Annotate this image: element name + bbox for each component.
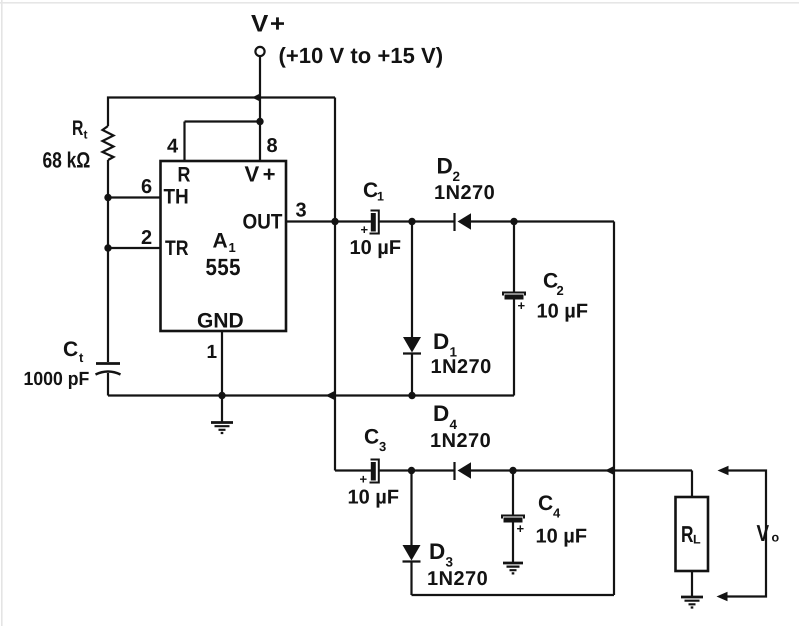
wire top rail Rt to OUT corner: [108, 98, 335, 127]
node D dot: [509, 467, 516, 474]
value C1 10uF: [351, 240, 401, 258]
label C4: [539, 495, 553, 510]
label D3: [431, 544, 445, 559]
pin 8: [267, 138, 277, 152]
value 68 kOhm: [43, 152, 89, 168]
node C dot: [408, 467, 415, 474]
pin label TH: [164, 189, 188, 203]
pin label V+: [245, 166, 275, 181]
supply range label: [280, 47, 442, 68]
crossover arrow at right rail: [605, 466, 614, 475]
pin 2: [142, 230, 152, 244]
resistor RL box: [676, 497, 709, 571]
pin 4: [167, 139, 178, 153]
op-amp A1 555 timer box: [161, 161, 287, 331]
label RL: [682, 526, 693, 542]
label D4: [435, 406, 449, 421]
arrow Vo bottom: [717, 592, 728, 601]
wire TR: [108, 247, 160, 249]
wire C1 to node A: [379, 220, 454, 222]
capacitor Ct: [96, 362, 120, 365]
node OUT junction dot: [331, 218, 338, 225]
value D4 1N270: [431, 433, 490, 447]
label D1: [435, 334, 449, 349]
pin label R: [179, 167, 190, 181]
diode D1: [411, 222, 413, 338]
label Rt: [73, 121, 83, 135]
arrow Vo top: [718, 466, 729, 475]
wire right vertical rail: [613, 222, 615, 596]
label A1: [213, 233, 227, 247]
value C3 10uF: [349, 490, 399, 508]
wire pin 1 to ground: [221, 331, 223, 396]
pin 1: [208, 345, 217, 358]
wire RL to ground: [691, 571, 693, 597]
value Ct 1000 pF: [25, 372, 89, 389]
node ground junction dot: [218, 392, 225, 399]
label Vo: [757, 525, 769, 541]
polarity plus C4: [517, 525, 524, 532]
capacitor C4: [512, 471, 514, 516]
label D2: [438, 158, 452, 173]
capacitor C1: [371, 213, 376, 232]
diode D4: [453, 462, 455, 480]
scan edge artifact top: [0, 2, 799, 4]
node TR junction dot: [104, 244, 111, 251]
wire Vo measurement bracket: [725, 471, 766, 597]
crossover arrow on ground rail: [326, 391, 335, 400]
value C2 10uF: [538, 304, 588, 322]
wire ground rail: [108, 394, 514, 396]
polarity plus C2: [518, 302, 525, 309]
label C1: [364, 182, 378, 197]
node pins 4-8 junction dot: [256, 118, 263, 125]
wire pin 4 link: [185, 122, 261, 162]
scan edge artifact left: [1, 0, 3, 626]
wire bottom return: [412, 594, 615, 596]
node V+ supply label: [251, 15, 284, 32]
wire node D to RL: [691, 471, 693, 498]
pin 6: [142, 179, 152, 193]
diode D2: [453, 213, 455, 231]
label C2: [544, 273, 558, 288]
polarity plus C1: [361, 226, 368, 233]
wire node A to right rail: [470, 220, 614, 222]
V+ terminal: [255, 47, 264, 56]
wire C3 to node C: [379, 469, 454, 471]
crossover arrow on top rail: [252, 93, 261, 102]
wire Rt to TH TR Ct: [107, 160, 109, 362]
label C3: [365, 429, 379, 444]
node A dot: [408, 218, 415, 225]
value D3 1N270: [428, 571, 487, 585]
value C4 10uF: [537, 529, 587, 547]
wire TH: [108, 196, 160, 198]
diode D3: [410, 471, 412, 546]
pin 3: [296, 203, 306, 217]
pin label OUT: [243, 214, 282, 229]
wire OUT pin 3: [286, 220, 371, 222]
wire node D to load: [470, 469, 692, 471]
wire second stage feed: [335, 469, 371, 471]
polarity plus C3: [360, 476, 367, 483]
value D2 1N270: [435, 185, 494, 199]
pin label TR: [165, 241, 188, 255]
node B dot: [510, 218, 517, 225]
node TH junction dot: [104, 194, 111, 201]
capacitor C3: [371, 462, 376, 481]
value D1 1N270: [432, 359, 491, 373]
wire OUT feedback drop: [334, 98, 336, 471]
pin label GND: [198, 313, 243, 328]
capacitor C2: [513, 222, 515, 293]
ground symbol main: [221, 396, 223, 423]
ground symbol C4: [503, 562, 523, 565]
resistor Rt: [103, 126, 114, 160]
label Ct: [64, 341, 78, 356]
wire V+ drop to pins 4-8: [259, 56, 261, 161]
node D1 rail dot: [408, 392, 415, 399]
ground symbol RL: [681, 596, 703, 599]
label 555: [206, 259, 240, 275]
